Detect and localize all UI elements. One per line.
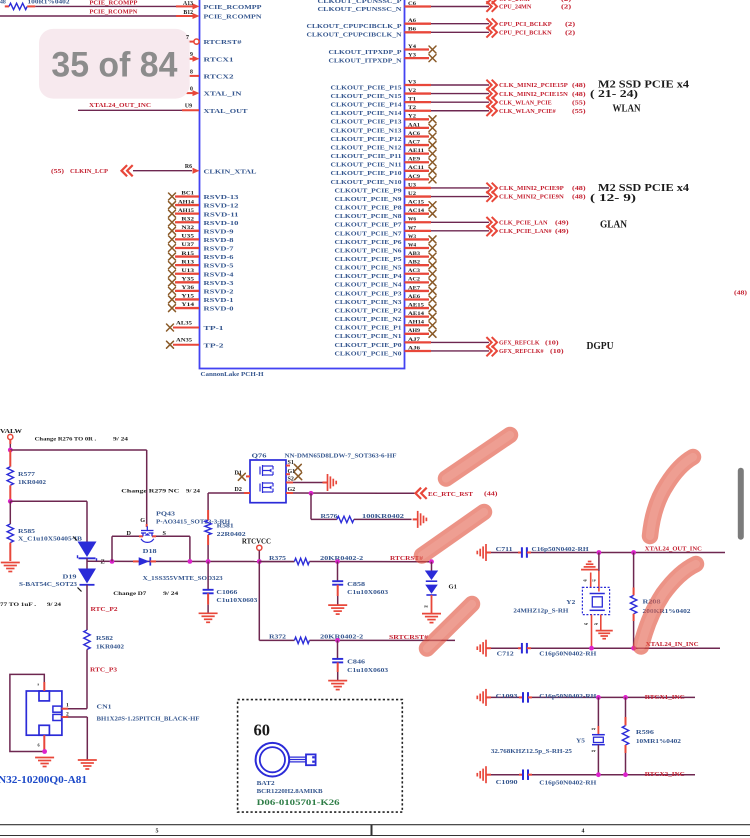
- junction RTCVCC at Z rail: [257, 559, 262, 564]
- svg-text:EC_RTC_RST: EC_RTC_RST: [428, 491, 474, 498]
- pin Y3 no-connect: [405, 57, 430, 59]
- ground below C846: [328, 681, 347, 690]
- svg-text:G: G: [140, 517, 145, 524]
- diode D18 X_1SS355VMTE_SOD323: [133, 560, 139, 562]
- svg-text:AC14: AC14: [408, 208, 424, 214]
- svg-text:N32: N32: [181, 225, 194, 231]
- svg-text:9/ 24: 9/ 24: [113, 437, 128, 443]
- svg-text:C1090: C1090: [496, 780, 518, 786]
- svg-text:CLKOUT_PCIE_N3: CLKOUT_PCIE_N3: [335, 299, 403, 306]
- svg-text:BAT2: BAT2: [257, 781, 275, 787]
- wire D19 cathode down to RTC_P2: [86, 585, 88, 630]
- rotated ground at C711: [477, 544, 491, 561]
- connector CN1 body: [26, 691, 62, 735]
- svg-text:1P: 1P: [592, 579, 596, 583]
- svg-text:P0: P0: [424, 605, 428, 609]
- wire PQ43 drain-source branch: [112, 535, 139, 537]
- pin AJ7 wire to net GFX_REFCLK: [405, 341, 432, 343]
- svg-text:8: 8: [190, 69, 193, 75]
- pin T2 wire to net CLK_WLAN_PCIE#: [405, 110, 432, 112]
- svg-text:S-BAT54C_SOT23: S-BAT54C_SOT23: [19, 582, 77, 588]
- sheet border lines with zone numbers: [0, 824, 750, 826]
- svg-text:RSVD-2: RSVD-2: [204, 288, 235, 295]
- capacitor C846 C1u10X0603: [337, 640, 339, 659]
- wire G2 to EC_RTC_RST: [293, 492, 415, 494]
- svg-text:CLKOUT_PCIE_P6: CLKOUT_PCIE_P6: [335, 239, 403, 246]
- pin R6 input arrow: [193, 168, 200, 174]
- svg-text:(44): (44): [484, 491, 498, 498]
- svg-text:C16p50N0402-RH: C16p50N0402-RH: [539, 652, 596, 658]
- svg-text:XTAL_OUT: XTAL_OUT: [204, 108, 249, 115]
- svg-text:B12: B12: [183, 10, 193, 16]
- wire RTCVCC column down to R372: [258, 562, 260, 641]
- svg-text:Y2: Y2: [566, 600, 575, 606]
- resistor R548 100R1%0402: [5, 5, 9, 7]
- scrollbar thumb: [738, 468, 744, 540]
- pin RSVD-13 (BC1) no-connect: [169, 193, 176, 200]
- svg-text:(2): (2): [565, 21, 575, 28]
- svg-text:PCIE_RCOMPN: PCIE_RCOMPN: [204, 14, 262, 21]
- svg-text:R581: R581: [217, 524, 234, 530]
- svg-text:CLKOUT_PCIE_N12: CLKOUT_PCIE_N12: [331, 144, 403, 151]
- pin RSVD-7 (U37) no-connect: [169, 244, 176, 251]
- svg-text:CLK_PCIE_LAN#: CLK_PCIE_LAN#: [499, 229, 552, 235]
- pin RSVD-11 (AH15) no-connect: [169, 210, 176, 217]
- svg-text:AH14: AH14: [178, 199, 194, 205]
- svg-text:T2: T2: [408, 105, 416, 111]
- svg-text:6: 6: [38, 743, 40, 748]
- svg-text:CLKOUT_PCIE_P14: CLKOUT_PCIE_P14: [331, 102, 403, 109]
- pin AC6 no-connect: [405, 135, 430, 137]
- svg-text:(10): (10): [550, 348, 564, 355]
- svg-text:U37: U37: [181, 242, 194, 248]
- svg-text:C1093: C1093: [496, 694, 518, 700]
- svg-text:20KR0402-2: 20KR0402-2: [320, 635, 363, 641]
- svg-text:CLKOUT_CPUPCIBCLK_P: CLKOUT_CPUPCIBCLK_P: [307, 23, 402, 30]
- svg-text:9/ 24: 9/ 24: [163, 591, 178, 597]
- svg-text:U35: U35: [181, 234, 194, 240]
- junction at C846: [335, 638, 340, 643]
- wire Y2 bottom to XTAL24_IN rail: [591, 615, 593, 649]
- svg-text:D: D: [127, 530, 132, 537]
- svg-text:2: 2: [66, 712, 69, 718]
- svg-text:CLKOUT_PCIE_N1: CLKOUT_PCIE_N1: [335, 333, 402, 340]
- Q76 pin D2 wire: [244, 492, 250, 494]
- pin TP-2 (AN35) no-connect: [167, 341, 174, 348]
- svg-text:RTCX2_INC: RTCX2_INC: [645, 771, 685, 778]
- svg-text:XTAL24_OUT_INC: XTAL24_OUT_INC: [89, 103, 151, 109]
- svg-text:(48): (48): [572, 82, 586, 89]
- pin AJ6 wire to net GFX_REFCLK#: [405, 350, 432, 352]
- pin V2 wire to net CLK_MINI2_PCIE15N: [405, 92, 432, 94]
- svg-text:AC7: AC7: [408, 139, 420, 145]
- svg-text:G1: G1: [449, 583, 457, 590]
- svg-text:CLKOUT_PCIE_P7: CLKOUT_PCIE_P7: [335, 222, 403, 229]
- svg-text:CLK_MINI2_PCIE15P: CLK_MINI2_PCIE15P: [499, 83, 568, 89]
- pin AE11 no-connect: [405, 152, 430, 154]
- svg-text:CLKOUT_CPUNSSC_N: CLKOUT_CPUNSSC_N: [318, 6, 402, 13]
- svg-text:Change R279 NC: Change R279 NC: [121, 489, 179, 495]
- wire D19 to Z node: [86, 558, 88, 568]
- svg-text:RTC_P2: RTC_P2: [91, 606, 118, 613]
- rotated ground at C1093: [477, 689, 491, 706]
- svg-text:CLKOUT_CPUNSSC_P: CLKOUT_CPUNSSC_P: [318, 0, 402, 5]
- svg-text:CLKOUT_PCIE_P8: CLKOUT_PCIE_P8: [335, 205, 403, 212]
- CN1 pin 1 wire to RTC_P3 column: [62, 708, 69, 710]
- svg-text:VALW: VALW: [0, 428, 23, 435]
- capacitor C858 C1u10X0603: [337, 562, 339, 582]
- svg-text:5P: 5P: [584, 622, 588, 626]
- wire PCIE_RCOMPN row: [0, 15, 194, 17]
- svg-text:AJ7: AJ7: [408, 337, 420, 343]
- svg-text:Y5: Y5: [576, 738, 585, 744]
- junction below R577: [8, 499, 13, 504]
- svg-text:CLK_PCIE_LAN: CLK_PCIE_LAN: [499, 220, 548, 226]
- crystal Y5 32.768KHZ12.5p_S-RH-25: [597, 697, 599, 726]
- svg-text:R372: R372: [269, 635, 286, 641]
- ground below G1: [422, 614, 441, 623]
- svg-text:PCIE_RCOMPN: PCIE_RCOMPN: [89, 10, 138, 16]
- svg-text:U3: U3: [408, 182, 416, 188]
- pin RSVD-9 (N32) no-connect: [169, 227, 176, 234]
- svg-text:CN1: CN1: [97, 704, 112, 710]
- svg-text:100R1%0402: 100R1%0402: [28, 0, 70, 6]
- Q76 pin G2 wire: [286, 492, 293, 494]
- svg-text:AE15: AE15: [408, 302, 424, 308]
- svg-text:S: S: [163, 530, 167, 537]
- svg-text:XTAL24_OUT_INC: XTAL24_OUT_INC: [645, 546, 702, 553]
- svg-text:CLKOUT_PCIE_P3: CLKOUT_PCIE_P3: [335, 290, 403, 297]
- wire VALW vertical to junction: [9, 444, 11, 450]
- svg-text:NN-DMN65D8LDW-7_SOT363-6-HF: NN-DMN65D8LDW-7_SOT363-6-HF: [285, 453, 397, 459]
- svg-text:CPU_PCI_BCLKN: CPU_PCI_BCLKN: [499, 31, 552, 37]
- svg-text:C712: C712: [497, 652, 514, 658]
- svg-text:(49): (49): [555, 228, 569, 235]
- svg-text:Y3: Y3: [408, 53, 416, 59]
- svg-text:AC15: AC15: [408, 200, 424, 206]
- svg-text:Y4: Y4: [408, 44, 416, 50]
- svg-text:CPU_PCI_BCLKP: CPU_PCI_BCLKP: [499, 22, 552, 28]
- capacitor C1093 C16p50N0402-RH: [491, 696, 519, 698]
- pin RSVD-6 (R15) no-connect: [169, 253, 176, 260]
- junction R208 bottom rail: [631, 646, 636, 651]
- svg-text:S1: S1: [288, 460, 294, 466]
- svg-text:W3: W3: [408, 234, 416, 240]
- pin RSVD-10 (R32) no-connect: [169, 219, 176, 226]
- svg-text:(49): (49): [555, 219, 569, 226]
- pin AC14 no-connect: [405, 213, 430, 215]
- svg-text:C1u10X0603: C1u10X0603: [347, 590, 388, 596]
- svg-text:Y15: Y15: [181, 294, 194, 300]
- svg-text:(55): (55): [572, 108, 586, 115]
- svg-text:( 12- 9): ( 12- 9): [590, 193, 637, 204]
- svg-text:Change D7: Change D7: [113, 591, 146, 597]
- rotated ground at C1090: [477, 766, 491, 783]
- svg-text:( 21- 24): ( 21- 24): [590, 89, 639, 100]
- svg-text:9/ 24: 9/ 24: [47, 602, 61, 608]
- svg-text:s: s: [38, 682, 40, 687]
- svg-text:RTCX2: RTCX2: [204, 74, 235, 81]
- wire VALW rail horizontal to PQ43 gate column: [10, 449, 146, 451]
- svg-text:GLAN: GLAN: [600, 219, 627, 230]
- svg-text:32.768KHZ12.5p_S-RH-25: 32.768KHZ12.5p_S-RH-25: [491, 749, 572, 755]
- svg-text:C16p50N0402-RH: C16p50N0402-RH: [539, 694, 596, 700]
- pin RSVD-1 (Y15) no-connect: [169, 296, 176, 303]
- resistor R372 20KR0402-2: [259, 639, 294, 641]
- resistor R375 20KR0402-2: [259, 561, 294, 563]
- red highlighter stroke right upper: [650, 457, 693, 536]
- svg-text:Y2: Y2: [408, 114, 416, 120]
- pin W4 no-connect: [405, 247, 430, 249]
- junction R581 column at Z rail: [206, 559, 211, 564]
- svg-text:W7: W7: [408, 225, 416, 231]
- rotated ground at C712: [477, 640, 491, 657]
- Q76 pin G1 no-connect: [286, 473, 290, 475]
- svg-text:Q76: Q76: [252, 453, 267, 459]
- svg-text:AL35: AL35: [176, 320, 192, 326]
- pin RSVD-2 (Y36) no-connect: [169, 287, 176, 294]
- svg-text:(55): (55): [572, 99, 586, 106]
- svg-text:1KR0402: 1KR0402: [96, 644, 124, 650]
- svg-text:RTCX1_INC: RTCX1_INC: [645, 694, 685, 701]
- svg-text:D2: D2: [235, 487, 242, 493]
- pin W6 wire to net CLK_PCIE_LAN: [405, 221, 432, 223]
- CN1 shield pin top stub: [43, 682, 45, 691]
- svg-text:BC1: BC1: [181, 191, 194, 197]
- svg-text:CLK_MINI2_PCIE15N: CLK_MINI2_PCIE15N: [499, 92, 569, 98]
- svg-text:2P: 2P: [594, 622, 598, 626]
- svg-text:(48): (48): [572, 185, 586, 192]
- svg-text:PCIE_RCOMPP: PCIE_RCOMPP: [204, 4, 262, 11]
- pin RSVD-12 (AH14) no-connect: [169, 202, 176, 209]
- svg-text:CLKOUT_PCIE_N2: CLKOUT_PCIE_N2: [335, 316, 403, 323]
- pin W7 wire to net CLK_PCIE_LAN#: [405, 230, 432, 232]
- svg-text:(2): (2): [561, 4, 571, 11]
- Q76 pin S2 wire to ground: [286, 482, 293, 484]
- Q76 pin D1 no-connect: [246, 475, 250, 477]
- svg-text:GFX_REFCLK#: GFX_REFCLK#: [499, 349, 544, 355]
- svg-text:CLKOUT_PCIE_N9: CLKOUT_PCIE_N9: [335, 196, 403, 203]
- pin AH9 no-connect: [405, 333, 430, 335]
- svg-text:77 TO 1uF .: 77 TO 1uF .: [0, 602, 37, 608]
- pin A13 input arrow: [193, 3, 200, 9]
- svg-text:CLKOUT_PCIE_N10: CLKOUT_PCIE_N10: [331, 179, 403, 186]
- svg-text:R577: R577: [18, 472, 35, 478]
- resistor R577 1KR0402: [9, 450, 11, 467]
- svg-text:AJ6: AJ6: [408, 345, 420, 351]
- junction Y2 bottom rail: [589, 646, 594, 651]
- svg-text:CLKIN_XTAL: CLKIN_XTAL: [204, 168, 258, 175]
- svg-text:CLKOUT_PCIE_N4: CLKOUT_PCIE_N4: [335, 282, 403, 289]
- svg-text:X_1SS355VMTE_SOD323: X_1SS355VMTE_SOD323: [143, 576, 223, 582]
- svg-text:T1: T1: [408, 97, 416, 103]
- svg-text:R582: R582: [96, 636, 113, 642]
- svg-text:AA1: AA1: [408, 122, 420, 128]
- svg-text:AE14: AE14: [408, 311, 424, 317]
- svg-text:CLKOUT_PCIE_N6: CLKOUT_PCIE_N6: [335, 247, 403, 254]
- svg-text:CLKOUT_PCIE_N8: CLKOUT_PCIE_N8: [335, 213, 403, 220]
- pin RSVD-0 (Y14) no-connect: [169, 305, 176, 312]
- svg-text:RSVD-1: RSVD-1: [204, 297, 234, 304]
- resistor R208 200KR1%0402: [633, 553, 635, 588]
- resistor R596 10MR1%0402: [625, 697, 627, 717]
- svg-text:SRTCRST#: SRTCRST#: [389, 634, 429, 641]
- junction R208 top: [631, 550, 636, 555]
- svg-text:C1u10X0603: C1u10X0603: [347, 668, 388, 674]
- IC U1 CannonLake PCH-H block outline: [200, 0, 405, 369]
- svg-text:W4: W4: [408, 242, 416, 248]
- svg-text:C711: C711: [496, 547, 513, 553]
- chevron EC_RTC_RST: [416, 488, 427, 499]
- pin T1 wire to net CLK_WLAN_PCIE: [405, 101, 432, 103]
- CN1 shield loop wire: [10, 674, 45, 751]
- svg-text:100KR0402: 100KR0402: [362, 514, 404, 520]
- junction at C858: [335, 559, 340, 564]
- svg-text:AC11: AC11: [408, 165, 424, 171]
- pin AE9 no-connect: [405, 161, 430, 163]
- pin Y2 no-connect: [405, 118, 430, 120]
- Q76 internal mosfet A: [260, 465, 273, 476]
- svg-text:CLKOUT_PCIE_N14: CLKOUT_PCIE_N14: [331, 110, 403, 117]
- svg-text:U9: U9: [185, 104, 192, 110]
- svg-text:CLKOUT_PCIE_N11: CLKOUT_PCIE_N11: [331, 162, 402, 169]
- ground below C1066: [199, 613, 218, 622]
- pin AE6 no-connect: [405, 298, 430, 300]
- wire PQ43 right leg vertical: [189, 536, 191, 561]
- svg-text:CLKOUT_PCIE_P11: CLKOUT_PCIE_P11: [331, 153, 402, 160]
- pin AB2 no-connect: [405, 264, 430, 266]
- svg-text:RSVD-10: RSVD-10: [204, 220, 240, 227]
- input chevron for CLKIN_LCP: [122, 165, 133, 176]
- ground for CN1 shield: [35, 758, 54, 767]
- svg-text:AC3: AC3: [408, 268, 420, 274]
- svg-text:AE6: AE6: [408, 294, 420, 300]
- svg-text:G1: G1: [288, 469, 296, 475]
- svg-text:CLKOUT_PCIE_N5: CLKOUT_PCIE_N5: [335, 265, 403, 272]
- svg-text:CLKOUT_PCIE_P2: CLKOUT_PCIE_P2: [335, 307, 403, 314]
- svg-text:AB2: AB2: [408, 260, 420, 266]
- svg-text:C1u10X0603: C1u10X0603: [216, 598, 257, 604]
- svg-text:R6: R6: [185, 164, 192, 170]
- svg-text:D06-0105701-K26: D06-0105701-K26: [257, 797, 341, 807]
- svg-text:RSVD-0: RSVD-0: [204, 306, 235, 313]
- svg-text:RTC_P3: RTC_P3: [90, 666, 117, 673]
- CN1 pin 2 wire to ground: [62, 716, 69, 718]
- pin RSVD-8 (U35) no-connect: [169, 236, 176, 243]
- svg-text:RSVD-7: RSVD-7: [204, 246, 235, 253]
- svg-text:DGPU: DGPU: [587, 341, 614, 352]
- svg-text:CLKOUT_ITPXDP_P: CLKOUT_ITPXDP_P: [329, 49, 402, 56]
- svg-text:AC9: AC9: [408, 174, 420, 180]
- Q76 internal mosfet B: [260, 482, 273, 493]
- svg-text:9: 9: [190, 52, 193, 58]
- svg-text:RSVD-8: RSVD-8: [204, 237, 235, 244]
- svg-text:BCR1220H2.8AMIKB: BCR1220H2.8AMIKB: [257, 789, 323, 795]
- svg-text:R15: R15: [181, 251, 194, 257]
- pin XTAL_IN stub with input arrow: [187, 92, 194, 94]
- pin AH14 no-connect: [405, 324, 430, 326]
- svg-text:D18: D18: [143, 549, 157, 555]
- pin AC9 no-connect: [405, 178, 430, 180]
- pin AE14 no-connect: [405, 316, 430, 318]
- pin A6 wire to net CPU_PCI_BCLKP: [405, 23, 432, 25]
- svg-text:CLKOUT_PCIE_N0: CLKOUT_PCIE_N0: [335, 350, 403, 357]
- svg-text:48: 48: [0, 0, 6, 6]
- svg-text:AH9: AH9: [408, 328, 420, 334]
- svg-text:RTCRST#: RTCRST#: [204, 39, 243, 46]
- crystal Y2 24MHZ12p_S-RH: [598, 553, 600, 572]
- pin RTCRST# stub with inversion bubble: [188, 41, 195, 43]
- svg-text:RSVD-11: RSVD-11: [204, 211, 239, 218]
- junction at CN1 shield ground: [42, 749, 47, 754]
- ground at Y2 case bottom: [600, 615, 602, 631]
- pin RSVD-3 (Y35) no-connect: [169, 279, 176, 286]
- svg-text:BH1X2#S-1.25PITCH_BLACK-HF: BH1X2#S-1.25PITCH_BLACK-HF: [97, 716, 200, 722]
- wire D2 to R581 column: [208, 492, 244, 494]
- svg-text:RSVD-5: RSVD-5: [204, 263, 235, 270]
- red highlighter stroke near EC_RTC_RST: [446, 435, 510, 479]
- svg-text:AH15: AH15: [178, 208, 194, 214]
- pin AE7 no-connect: [405, 290, 430, 292]
- junction Y5 bottom: [596, 772, 601, 777]
- pin V3 wire to net CLK_MINI2_PCIE15P: [405, 84, 432, 86]
- svg-text:10MR1%0402: 10MR1%0402: [636, 739, 681, 745]
- svg-text:WLAN: WLAN: [613, 104, 641, 115]
- resistor R576 100KR0402: [311, 518, 337, 520]
- svg-text:C16p50N0402-RH: C16p50N0402-RH: [532, 547, 589, 553]
- svg-text:RTCX1: RTCX1: [204, 56, 234, 63]
- svg-text:C6: C6: [408, 1, 416, 7]
- svg-text:XTAL24_IN_INC: XTAL24_IN_INC: [646, 641, 699, 648]
- svg-text:R585: R585: [18, 529, 35, 535]
- svg-text:V2: V2: [408, 88, 416, 94]
- svg-text:CLKOUT_PCIE_P5: CLKOUT_PCIE_P5: [335, 256, 403, 263]
- pin W3 no-connect: [405, 238, 430, 240]
- svg-text:1KR0402: 1KR0402: [18, 480, 46, 486]
- svg-text:S2: S2: [288, 477, 294, 483]
- pin AC3 no-connect: [405, 273, 430, 275]
- svg-text:7: 7: [186, 35, 189, 41]
- svg-text:CLK_WLAN_PCIE#: CLK_WLAN_PCIE#: [499, 109, 556, 115]
- svg-text:B6: B6: [408, 27, 416, 33]
- svg-text:TP-1: TP-1: [204, 325, 224, 332]
- svg-text:CLK_WLAN_PCIE: CLK_WLAN_PCIE: [499, 100, 552, 106]
- svg-text:0: 0: [190, 87, 193, 93]
- svg-text:RSVD-3: RSVD-3: [204, 280, 235, 287]
- pin AA1 no-connect: [405, 127, 430, 129]
- svg-text:(10): (10): [545, 340, 559, 347]
- junction R596 top: [623, 695, 628, 700]
- pin RSVD-4 (U13) no-connect: [169, 270, 176, 277]
- svg-text:C846: C846: [347, 660, 365, 666]
- junction Y5 top: [596, 695, 601, 700]
- wire junction down to R576: [310, 493, 312, 519]
- wire Z horizontal rail: [87, 560, 294, 562]
- svg-text:AC6: AC6: [408, 131, 420, 137]
- svg-text:AN35: AN35: [176, 338, 192, 344]
- svg-text:R13: R13: [181, 259, 194, 265]
- svg-text:GFX_REFCLK: GFX_REFCLK: [499, 341, 540, 347]
- svg-text:CLKOUT_PCIE_P12: CLKOUT_PCIE_P12: [331, 136, 403, 143]
- svg-text:Y35: Y35: [181, 277, 194, 283]
- capacitor C712 C16p50N0402-RH: [491, 647, 518, 649]
- battery detail dashed box: [238, 700, 403, 813]
- svg-text:CLKOUT_PCIE_P15: CLKOUT_PCIE_P15: [331, 84, 403, 91]
- svg-text:CLKOUT_CPUPCIBCLK_N: CLKOUT_CPUPCIBCLK_N: [307, 32, 402, 39]
- svg-text:V3: V3: [408, 79, 416, 85]
- CN1 bottom shield stub: [43, 735, 45, 751]
- pin B6 wire to net CPU_PCI_BCLKN: [405, 31, 432, 33]
